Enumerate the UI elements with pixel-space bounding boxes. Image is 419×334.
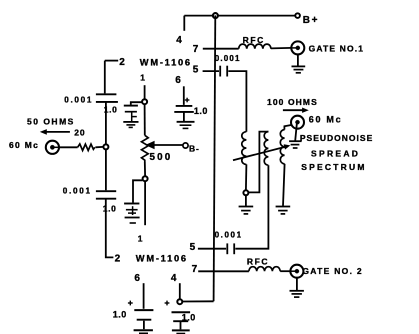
svg-text:1.0: 1.0 bbox=[103, 203, 117, 213]
svg-text:1.0: 1.0 bbox=[182, 313, 196, 323]
ground (pin 4 lower cap) bbox=[172, 329, 190, 331]
capacitor bypass to ground (upper cathode) bbox=[131, 102, 142, 105]
wire pot to lower junction bbox=[144, 162, 146, 176]
svg-text:7: 7 bbox=[193, 44, 199, 55]
svg-text:WM-1106: WM-1106 bbox=[140, 57, 192, 67]
wire pin 2 stub (upper) bbox=[105, 60, 118, 62]
wire node to tickler winding bbox=[249, 132, 269, 193]
wire pin 4 stub (upper tube) bbox=[183, 16, 185, 31]
wire left column upper bbox=[104, 61, 106, 94]
wire top B+ rail bbox=[184, 15, 295, 17]
connector J3 input 60 Mc bbox=[46, 141, 59, 154]
wire RFC2 to gate2 jack bbox=[280, 270, 291, 272]
svg-text:60 Mc: 60 Mc bbox=[309, 114, 343, 124]
svg-text:0.001: 0.001 bbox=[64, 96, 93, 105]
wire C to transformer primary top bbox=[228, 71, 246, 132]
svg-text:500: 500 bbox=[150, 152, 173, 163]
polarity + (pin 6 lower cap) bbox=[128, 302, 133, 304]
ground (pin 6 upper cap) bbox=[177, 121, 195, 123]
capacitor 0.001/1.0 (upper left) bbox=[96, 93, 117, 95]
svg-text:0.001: 0.001 bbox=[215, 230, 243, 239]
terminal B+ bbox=[295, 13, 300, 18]
ground (upper cathode bypass) bbox=[123, 121, 138, 123]
wire junction to pin 1 (lower) bbox=[144, 182, 146, 226]
wire pin 1 stub (upper) bbox=[144, 85, 146, 99]
wire pin 6 stub (upper) bbox=[183, 86, 185, 105]
wire pin 7 to RFC1 bbox=[203, 48, 239, 50]
svg-text:5: 5 bbox=[193, 64, 199, 75]
capacitor C 0.001 (upper right) bbox=[219, 66, 221, 77]
svg-text:RFC: RFC bbox=[247, 257, 269, 267]
node pin 4 junction bbox=[177, 299, 182, 304]
node primary bottom bbox=[243, 190, 248, 195]
transformer T1 tickler winding bbox=[264, 132, 268, 166]
polarity + (pin 6 upper cap) bbox=[185, 99, 190, 101]
svg-text:1.0: 1.0 bbox=[113, 310, 127, 320]
inductor RFC2 bbox=[249, 267, 280, 272]
svg-text:0.001: 0.001 bbox=[63, 186, 92, 195]
svg-text:B-: B- bbox=[189, 143, 200, 153]
arrow input direction bbox=[45, 131, 70, 133]
svg-text:GATE NO.1: GATE NO.1 bbox=[309, 44, 365, 54]
ground under J2 bbox=[296, 277, 298, 290]
wire bus bottom to pin 4 node bbox=[183, 300, 214, 302]
wire secondary top to output jack bbox=[284, 125, 292, 130]
svg-text:4: 4 bbox=[176, 35, 182, 46]
svg-text:20: 20 bbox=[74, 127, 85, 137]
wire primary bottom to node bbox=[245, 164, 248, 190]
wire left column lower bbox=[105, 150, 107, 191]
wire pin 6 stub (lower) bbox=[143, 283, 145, 309]
polarity + (pin 4 lower cap) bbox=[165, 302, 170, 304]
wire left column mid bbox=[105, 102, 107, 144]
wire left column bottom to pin 2 (lower) bbox=[106, 199, 114, 258]
transformer T1 primary winding bbox=[242, 132, 247, 165]
svg-text:WM-1106: WM-1106 bbox=[136, 254, 188, 264]
resistor R 20 bbox=[78, 144, 95, 151]
wire pin 4 stub (lower) bbox=[179, 283, 181, 299]
capacitor C 1.0 electrolytic (pin 6 upper) bbox=[176, 105, 193, 107]
svg-text:SPREAD: SPREAD bbox=[311, 148, 360, 158]
svg-text:50 OHMS: 50 OHMS bbox=[27, 117, 75, 127]
node junction on B+ rail bbox=[213, 13, 218, 18]
capacitor C 0.001 (lower right) bbox=[226, 243, 228, 254]
svg-text:2: 2 bbox=[119, 57, 125, 68]
svg-text:0.001: 0.001 bbox=[215, 54, 241, 63]
wire R20 to junction bbox=[95, 146, 103, 148]
wire pin 5 to C 0.001 (lower) bbox=[198, 248, 226, 250]
svg-text:60 Mc: 60 Mc bbox=[9, 140, 39, 150]
wire C to transformer secondary bottom bbox=[235, 165, 268, 249]
transformer T1 secondary winding bbox=[280, 130, 284, 164]
wire main vertical bus bbox=[214, 15, 216, 301]
svg-text:6: 6 bbox=[175, 75, 181, 86]
svg-text:PSEUDONOISE: PSEUDONOISE bbox=[300, 133, 373, 143]
svg-text:7: 7 bbox=[192, 264, 198, 275]
node input junction bbox=[103, 144, 108, 149]
svg-text:5: 5 bbox=[190, 242, 196, 253]
ground under J1 bbox=[297, 54, 299, 66]
ground (secondary bottom) bbox=[276, 206, 291, 208]
arrow output direction bbox=[283, 109, 304, 111]
ground (pin 6 lower cap) bbox=[134, 329, 153, 331]
svg-text:GATE NO. 2: GATE NO. 2 bbox=[302, 266, 363, 276]
node pin1 junction (upper) bbox=[142, 99, 147, 104]
ground (primary bottom) bbox=[245, 196, 247, 206]
capacitor C 1.0 electrolytic (pin 4 lower) bbox=[172, 311, 191, 313]
wire pin 7 to RFC2 bbox=[198, 270, 249, 272]
arrow pot wiper from B- bbox=[154, 144, 183, 146]
svg-text:6: 6 bbox=[134, 273, 140, 284]
connector J2 GATE NO. 2 bbox=[290, 265, 303, 278]
svg-text:2: 2 bbox=[115, 253, 121, 264]
svg-text:1: 1 bbox=[140, 72, 145, 82]
ground under J4 bbox=[295, 124, 297, 141]
connector J4 output 60 Mc bbox=[291, 116, 304, 129]
svg-text:RFC: RFC bbox=[243, 35, 265, 45]
capacitor 0.001/1.0 (lower left) bbox=[96, 190, 116, 192]
svg-text:1: 1 bbox=[138, 234, 143, 244]
capacitor C 1.0 electrolytic (pin 6 lower) bbox=[134, 309, 153, 311]
svg-text:1.0: 1.0 bbox=[194, 106, 208, 116]
potentiometer R 500 bbox=[142, 135, 149, 162]
svg-text:100 OHMS: 100 OHMS bbox=[267, 97, 318, 107]
ground (lower cathode bypass) bbox=[125, 217, 140, 219]
capacitor bypass to ground (lower cathode) bbox=[133, 180, 142, 202]
terminal B- bbox=[183, 143, 188, 148]
svg-text:B+: B+ bbox=[303, 15, 319, 26]
wire pin 5 to C 0.001 bbox=[203, 70, 219, 72]
wire input jack to R20 bbox=[59, 146, 78, 148]
svg-text:SPECTRUM: SPECTRUM bbox=[301, 162, 366, 172]
inductor RFC1 bbox=[239, 44, 271, 49]
connector J1 GATE NO.1 bbox=[291, 41, 304, 54]
wire center line to pot bbox=[144, 105, 146, 136]
wire secondary bottom to ground bbox=[283, 164, 285, 206]
wire RFC1 to gate1 jack bbox=[271, 47, 292, 50]
svg-text:4: 4 bbox=[171, 273, 177, 284]
node pot bottom junction bbox=[143, 176, 148, 181]
arrow variable tuning bbox=[233, 147, 286, 161]
